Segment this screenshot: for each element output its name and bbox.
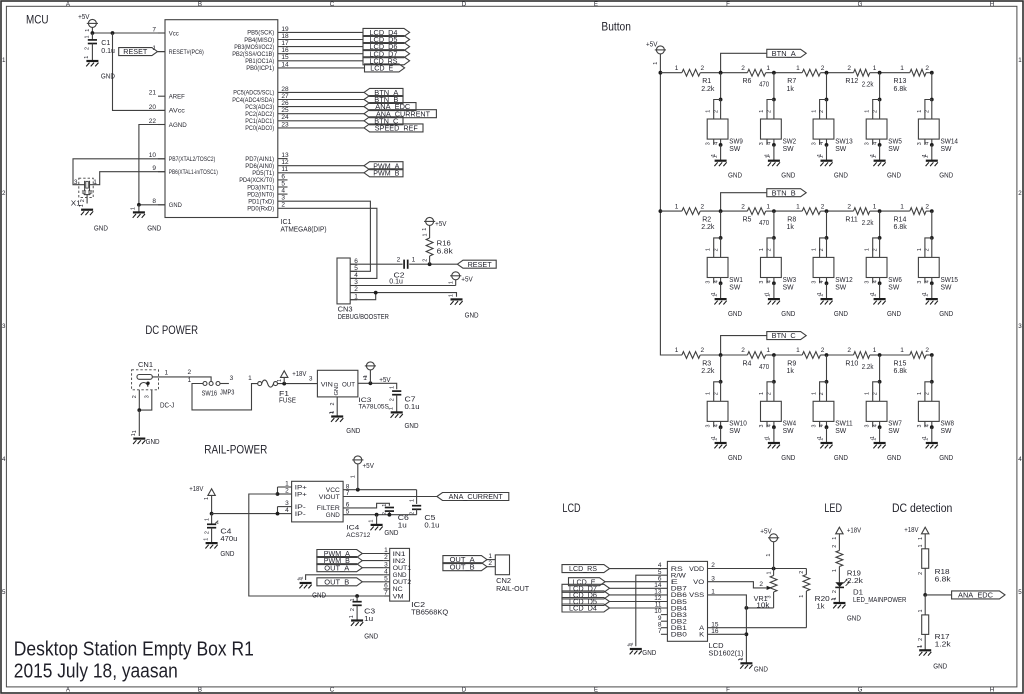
node RESET junction xyxy=(428,262,432,266)
svg-text:+5V: +5V xyxy=(435,221,447,228)
svg-text:1: 1 xyxy=(871,294,877,297)
svg-text:4: 4 xyxy=(925,280,931,283)
svg-text:GND: GND xyxy=(364,633,378,640)
svg-text:1: 1 xyxy=(93,179,97,186)
svg-text:1: 1 xyxy=(203,538,209,541)
svg-text:3: 3 xyxy=(865,142,871,145)
svg-text:1: 1 xyxy=(799,595,805,598)
svg-text:6.8k: 6.8k xyxy=(437,248,454,255)
wire LCD_D5 xyxy=(278,39,363,41)
svg-text:0.1u: 0.1u xyxy=(389,279,403,286)
wire LCD_RS xyxy=(278,60,363,62)
svg-text:2: 2 xyxy=(821,347,825,354)
svg-text:1: 1 xyxy=(131,207,137,210)
svg-text:IC2: IC2 xyxy=(411,602,425,609)
svg-text:4: 4 xyxy=(872,142,878,145)
svg-text:PB6(XTAL1-in/TOSC1): PB6(XTAL1-in/TOSC1) xyxy=(169,169,218,176)
svg-text:+18V: +18V xyxy=(904,527,918,534)
LCD pin 15 A xyxy=(699,621,719,632)
svg-text:4: 4 xyxy=(713,142,719,145)
+5V power symbol (MCU) xyxy=(78,14,98,33)
svg-text:1: 1 xyxy=(917,392,923,395)
svg-text:1: 1 xyxy=(285,481,289,488)
ground (SW4) xyxy=(766,438,796,462)
svg-text:4: 4 xyxy=(819,280,825,283)
svg-text:17: 17 xyxy=(281,40,289,47)
svg-text:TA78L05S: TA78L05S xyxy=(358,404,389,411)
svg-text:1: 1 xyxy=(832,537,838,540)
svg-text:1: 1 xyxy=(924,438,930,441)
svg-text:OUT2: OUT2 xyxy=(393,579,412,586)
svg-text:3: 3 xyxy=(759,425,765,428)
IC2 pin 7 VM xyxy=(383,590,403,601)
capacitor C2 xyxy=(389,257,415,286)
svg-text:R18: R18 xyxy=(935,569,950,576)
svg-text:2: 2 xyxy=(350,608,356,611)
wire button row BTN_C segment 1 xyxy=(660,354,720,356)
svg-text:GND: GND xyxy=(728,311,742,318)
svg-text:PB0(ICP1): PB0(ICP1) xyxy=(246,65,274,72)
svg-text:3: 3 xyxy=(230,375,234,382)
IC1 right pin 15 PB1(OC1A) xyxy=(245,54,289,65)
svg-text:4: 4 xyxy=(713,424,719,427)
net label PWM_B (IC2) xyxy=(317,557,362,566)
svg-text:GND: GND xyxy=(754,667,768,674)
svg-text:1: 1 xyxy=(79,204,85,207)
capacitor C6 xyxy=(382,504,409,530)
svg-text:3: 3 xyxy=(384,561,388,568)
svg-text:R19: R19 xyxy=(847,570,861,577)
wire LCD_D4 (LCD) xyxy=(610,607,668,609)
svg-text:2: 2 xyxy=(281,202,285,209)
svg-text:C1: C1 xyxy=(101,40,110,47)
wire button row BTN_C segment 5 xyxy=(880,354,932,356)
svg-text:SW10: SW10 xyxy=(729,421,747,428)
svg-text:SW: SW xyxy=(835,146,846,153)
svg-text:SW: SW xyxy=(783,428,794,435)
svg-text:1: 1 xyxy=(675,65,679,72)
svg-text:26: 26 xyxy=(281,100,289,107)
svg-text:3: 3 xyxy=(865,425,871,428)
IC4 IP+ bracket xyxy=(276,487,280,496)
svg-text:4: 4 xyxy=(285,507,289,514)
svg-text:6.8k: 6.8k xyxy=(894,86,908,93)
wire LCD_D6 (LCD) xyxy=(610,594,668,596)
svg-text:R17: R17 xyxy=(935,634,950,641)
border column label B xyxy=(198,1,202,694)
svg-text:E: E xyxy=(594,1,598,8)
svg-text:SD1602(1): SD1602(1) xyxy=(709,651,744,658)
svg-text:1: 1 xyxy=(871,155,877,158)
node BTN_B junction 4 xyxy=(878,209,882,213)
svg-text:PD5(T1): PD5(T1) xyxy=(252,170,274,177)
svg-text:GND: GND xyxy=(147,225,161,232)
IC2 pin 4 GND xyxy=(383,568,407,579)
svg-text:1: 1 xyxy=(766,438,772,441)
node VDD junction xyxy=(772,567,776,571)
resistor R20 xyxy=(799,569,830,628)
switch SW3 xyxy=(759,211,796,299)
IC1 right pin 25 PC2(ADC2) xyxy=(245,107,289,118)
svg-text:3: 3 xyxy=(865,281,871,284)
svg-text:ANA_CURRENT: ANA_CURRENT xyxy=(449,494,504,501)
svg-text:2.2k: 2.2k xyxy=(701,224,715,231)
svg-text:SW: SW xyxy=(783,284,794,291)
ground (SW5) xyxy=(871,155,901,179)
svg-text:1: 1 xyxy=(85,36,91,39)
svg-text:1: 1 xyxy=(1018,57,1022,64)
svg-text:1: 1 xyxy=(818,438,824,441)
resistor R18 xyxy=(918,545,951,595)
svg-text:+5V: +5V xyxy=(461,277,473,284)
node BTN_A junction 3 xyxy=(825,71,829,75)
IC1 right pin 12 PD6(AIN0) xyxy=(245,159,289,170)
wire C2 to RESET flag xyxy=(409,263,457,265)
svg-text:2: 2 xyxy=(832,590,838,593)
svg-text:GND: GND xyxy=(939,311,953,318)
net label ANA_EDC (DC det) xyxy=(952,591,1005,600)
svg-text:LCD_D4: LCD_D4 xyxy=(569,606,597,613)
svg-text:PC1(ADC1): PC1(ADC1) xyxy=(245,118,274,125)
svg-text:E: E xyxy=(594,687,598,694)
svg-text:R9: R9 xyxy=(787,360,796,367)
svg-text:1: 1 xyxy=(818,294,824,297)
svg-text:1: 1 xyxy=(384,547,388,554)
svg-text:1u: 1u xyxy=(398,523,407,530)
svg-text:PD0(RxD): PD0(RxD) xyxy=(247,206,274,213)
svg-text:GND: GND xyxy=(334,383,340,396)
svg-text:GND: GND xyxy=(326,512,340,519)
net label ANA_EDC (MCU) xyxy=(364,103,416,112)
svg-text:1: 1 xyxy=(382,504,388,507)
wire IC3 OUT to +5V rail xyxy=(358,375,397,389)
svg-text:IP+: IP+ xyxy=(295,484,307,491)
svg-text:7: 7 xyxy=(152,26,156,33)
IC4 left pin 3 xyxy=(278,500,306,511)
CN1 pin2/pin3 wires xyxy=(132,390,152,436)
+5V power symbol (LCD) xyxy=(760,529,779,569)
wire +18V to IC4 IP- xyxy=(212,513,278,515)
ground (LCD) xyxy=(738,658,768,674)
svg-text:CN2: CN2 xyxy=(496,578,511,585)
IC1 right pin 28 PC5(ADC5/SCL) xyxy=(233,86,289,97)
ground (SW6) xyxy=(871,294,901,318)
node VR1/VSS junction xyxy=(745,606,749,610)
svg-text:TB6568KQ: TB6568KQ xyxy=(411,610,449,617)
svg-text:FUSE: FUSE xyxy=(279,398,296,405)
net label BTN_C xyxy=(767,332,806,341)
svg-text:2: 2 xyxy=(767,248,773,251)
svg-text:+5V: +5V xyxy=(363,463,375,470)
svg-text:SW: SW xyxy=(729,146,740,153)
svg-text:GND: GND xyxy=(101,74,115,81)
resistor R8 xyxy=(787,203,825,231)
svg-text:0.1u: 0.1u xyxy=(424,523,439,530)
svg-text:GND: GND xyxy=(781,455,795,462)
svg-text:1: 1 xyxy=(675,203,679,210)
svg-text:1: 1 xyxy=(2,57,6,64)
border column label A xyxy=(66,1,71,694)
svg-text:1: 1 xyxy=(865,248,871,251)
node GND junction (IC4) xyxy=(375,513,379,517)
svg-text:3: 3 xyxy=(281,195,285,202)
svg-text:470: 470 xyxy=(759,82,769,89)
IC4 reference xyxy=(346,524,370,539)
svg-text:1: 1 xyxy=(422,234,428,237)
svg-text:2: 2 xyxy=(700,347,704,354)
LCD pin 12 DB5 xyxy=(654,595,687,606)
border row label 2 xyxy=(2,190,1022,197)
svg-text:GND: GND xyxy=(847,616,861,623)
svg-text:1: 1 xyxy=(277,379,283,382)
svg-text:1: 1 xyxy=(796,203,800,210)
svg-text:LED_MAINPOWER: LED_MAINPOWER xyxy=(853,597,906,604)
svg-text:1k: 1k xyxy=(817,604,826,611)
svg-text:GND: GND xyxy=(933,664,947,671)
IC1 reference xyxy=(281,219,327,234)
node BTN_A junction 5 xyxy=(930,71,934,75)
node BTN_C junction 5 xyxy=(930,353,934,357)
svg-text:SW5: SW5 xyxy=(888,138,902,145)
svg-text:2.2k: 2.2k xyxy=(701,86,715,93)
wire PD1 TxD to CN3 pin5 xyxy=(278,201,371,271)
section title DC detection xyxy=(892,501,952,515)
wire PWM_B to IN2 xyxy=(362,560,383,562)
wire AVcc riser xyxy=(113,33,166,110)
svg-text:VIN: VIN xyxy=(321,381,333,388)
net label ANA_CURRENT (IC4) xyxy=(437,493,509,502)
svg-text:2: 2 xyxy=(204,531,210,534)
svg-text:RESET: RESET xyxy=(123,49,148,56)
svg-text:F: F xyxy=(726,1,730,8)
ground (SW14) xyxy=(924,155,954,179)
svg-text:2: 2 xyxy=(488,560,492,567)
IC1 right pin 17 PB3(MOSI/OC2) xyxy=(234,40,289,51)
svg-text:2: 2 xyxy=(925,203,929,210)
svg-text:6.8k: 6.8k xyxy=(894,224,908,231)
svg-text:1: 1 xyxy=(712,294,718,297)
resistor R3 xyxy=(675,347,715,375)
resistor R7 xyxy=(787,65,825,93)
IC3 reference xyxy=(358,397,389,411)
regulator IC3 body xyxy=(317,370,358,397)
svg-text:AREF: AREF xyxy=(169,94,185,101)
svg-text:Desktop Station Empty Box R1: Desktop Station Empty Box R1 xyxy=(14,638,254,660)
svg-text:OUT: OUT xyxy=(342,381,355,388)
svg-text:1: 1 xyxy=(363,375,369,378)
svg-text:VDD: VDD xyxy=(689,566,705,573)
svg-text:1: 1 xyxy=(329,411,335,414)
wire PWM_A (MCU) xyxy=(278,165,364,167)
svg-text:5: 5 xyxy=(384,575,388,582)
svg-text:BTN_C: BTN_C xyxy=(772,333,796,340)
resistor R16 xyxy=(422,233,453,264)
svg-text:GND: GND xyxy=(887,311,901,318)
svg-text:1: 1 xyxy=(187,377,191,384)
IC1 right pin 5 PD3(INT1) xyxy=(247,180,285,191)
wire PB7 to X1 xyxy=(73,159,165,185)
svg-text:1: 1 xyxy=(712,155,718,158)
svg-text:SW: SW xyxy=(835,428,846,435)
svg-text:0.1u: 0.1u xyxy=(405,404,420,411)
border column label E xyxy=(594,1,598,694)
svg-text:2: 2 xyxy=(132,395,138,398)
stub pin wire xyxy=(278,179,288,181)
svg-text:PB4(MISO): PB4(MISO) xyxy=(244,37,274,44)
svg-text:SW: SW xyxy=(888,146,899,153)
wire IC2 GND pin to ground xyxy=(298,575,383,580)
svg-text:1: 1 xyxy=(873,203,877,210)
ground (LED) xyxy=(831,598,861,623)
svg-text:2: 2 xyxy=(2,190,6,197)
svg-text:C: C xyxy=(330,1,335,8)
svg-text:27: 27 xyxy=(281,93,289,100)
svg-text:R7: R7 xyxy=(787,78,796,85)
svg-text:1: 1 xyxy=(706,248,712,251)
switch SW5 xyxy=(865,73,902,161)
svg-text:OUT1: OUT1 xyxy=(393,565,412,572)
net label LCD_E xyxy=(365,64,405,73)
svg-text:4: 4 xyxy=(767,280,773,283)
net label SPEED_REF (MCU) xyxy=(364,124,423,133)
svg-text:1: 1 xyxy=(204,497,210,500)
IC1 left pin 1 RESET#(PC6) xyxy=(152,45,203,56)
net label RESET (MCU) xyxy=(119,48,158,57)
border column label C xyxy=(330,1,335,694)
connector CN1 DC jack xyxy=(132,362,175,410)
svg-text:SW1: SW1 xyxy=(729,277,743,284)
svg-text:B: B xyxy=(198,1,202,8)
svg-text:2: 2 xyxy=(799,571,805,574)
node BTN_B junction 1 xyxy=(719,209,723,213)
LCD stub pin wire xyxy=(661,627,668,629)
svg-text:1: 1 xyxy=(831,598,837,601)
net label LCD_RS (LCD) xyxy=(562,565,610,574)
net label LCD_E (LCD) xyxy=(569,578,606,587)
svg-text:3: 3 xyxy=(812,142,818,145)
svg-text:1: 1 xyxy=(368,520,374,523)
svg-text:1: 1 xyxy=(628,644,634,647)
svg-text:1: 1 xyxy=(448,294,454,297)
svg-text:0.1u: 0.1u xyxy=(101,48,115,55)
ground (C7) xyxy=(389,407,419,430)
LCD pin 14 DB7 xyxy=(654,582,687,593)
svg-text:R2: R2 xyxy=(702,217,711,224)
border row label 1 xyxy=(2,57,1022,64)
IC1 left pin 7 Vcc xyxy=(152,26,178,37)
svg-text:4: 4 xyxy=(767,424,773,427)
svg-text:SW11: SW11 xyxy=(835,421,853,428)
svg-text:1: 1 xyxy=(766,155,772,158)
IC IC2 TB6568KQ motor driver body xyxy=(390,548,410,601)
net label LCD_RS xyxy=(363,57,410,66)
net label PWM_A (IC2) xyxy=(317,550,362,559)
svg-text:1: 1 xyxy=(796,347,800,354)
svg-text:RESET#(PC6): RESET#(PC6) xyxy=(169,49,204,56)
IC1 right pin 4 PD2(INT0) xyxy=(247,188,285,199)
svg-text:R10: R10 xyxy=(845,360,858,367)
ground (SW2) xyxy=(766,155,796,179)
svg-text:4: 4 xyxy=(819,142,825,145)
wire PWM_B (MCU) xyxy=(278,172,364,174)
svg-text:1: 1 xyxy=(873,65,877,72)
LCD pin 5 R/W xyxy=(658,569,686,580)
IC1 right pin 2 PD0(RxD) xyxy=(247,202,285,213)
svg-text:2: 2 xyxy=(925,248,931,251)
svg-text:IP+: IP+ xyxy=(295,491,307,498)
node CN3 pin1/pin2 junction xyxy=(374,291,378,295)
border column label D xyxy=(462,1,467,694)
svg-text:H: H xyxy=(990,1,994,8)
svg-text:25: 25 xyxy=(281,107,289,114)
svg-text:7: 7 xyxy=(384,590,388,597)
wire SW16 pin1 to fuse xyxy=(192,384,258,410)
svg-text:PD2(INT0): PD2(INT0) xyxy=(247,191,274,198)
svg-text:SW6: SW6 xyxy=(888,277,902,284)
switch SW11 xyxy=(812,355,853,443)
svg-text:4: 4 xyxy=(819,424,825,427)
svg-text:AVcc: AVcc xyxy=(169,108,185,115)
capacitor C7 xyxy=(389,386,419,413)
svg-text:1: 1 xyxy=(832,569,838,572)
svg-text:+5V: +5V xyxy=(646,41,658,48)
wire button row BTN_A segment 1 xyxy=(660,72,720,74)
section title DC POWER xyxy=(145,323,198,337)
switch SW10 xyxy=(706,355,747,443)
wire +5V button bus xyxy=(660,73,682,355)
svg-text:3: 3 xyxy=(812,281,818,284)
resistor R12 xyxy=(845,65,876,89)
svg-text:R1: R1 xyxy=(702,78,711,85)
wire OUT_B to OUT2 xyxy=(362,581,383,583)
svg-text:R5: R5 xyxy=(743,217,752,224)
svg-text:23: 23 xyxy=(281,121,289,128)
svg-text:1k: 1k xyxy=(787,86,795,93)
svg-text:ATMEGA8(DIP): ATMEGA8(DIP) xyxy=(281,227,327,234)
svg-text:SW: SW xyxy=(783,146,794,153)
wire LCD_D4 xyxy=(278,31,363,33)
svg-text:R15: R15 xyxy=(894,360,907,367)
LCD pin 6 E xyxy=(658,575,678,586)
svg-text:NC: NC xyxy=(393,586,403,593)
svg-text:VSS: VSS xyxy=(689,592,704,599)
wire button row BTN_A segment 4 xyxy=(827,72,880,74)
svg-text:GND: GND xyxy=(346,428,360,435)
svg-text:3: 3 xyxy=(759,281,765,284)
wire LCD K xyxy=(708,633,747,635)
svg-text:C7: C7 xyxy=(405,397,416,404)
svg-text:GND: GND xyxy=(312,592,326,599)
svg-text:1: 1 xyxy=(132,430,138,433)
svg-text:GND: GND xyxy=(939,455,953,462)
svg-text:28: 28 xyxy=(281,86,289,93)
node BTN_C junction 2 xyxy=(772,353,776,357)
svg-text:1u: 1u xyxy=(364,616,373,623)
switch SW15 xyxy=(917,211,958,299)
svg-text:GND: GND xyxy=(405,423,419,430)
svg-text:2: 2 xyxy=(422,259,428,262)
svg-text:1: 1 xyxy=(873,347,877,354)
svg-text:R20: R20 xyxy=(815,596,830,603)
svg-text:2: 2 xyxy=(389,398,395,401)
+18V power symbol (LED) xyxy=(832,527,861,550)
svg-text:IP-: IP- xyxy=(295,511,306,518)
svg-text:GND: GND xyxy=(834,311,848,318)
node VM/C3 junction xyxy=(355,594,359,598)
svg-text:6: 6 xyxy=(384,583,388,590)
svg-text:VM: VM xyxy=(393,593,404,600)
svg-text:13: 13 xyxy=(281,152,289,159)
